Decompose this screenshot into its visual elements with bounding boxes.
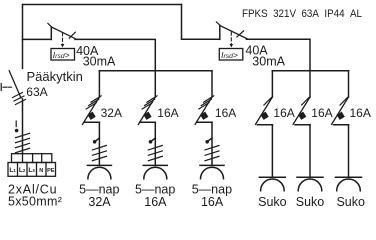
box Irsd: [219, 49, 243, 61]
socket symbol suko3: [336, 177, 362, 191]
wire: group2 bus: [272, 70, 348, 72]
svg-text:N: N: [39, 168, 43, 174]
wire: branch to RCD F1: [23, 38, 52, 40]
wire col1 down: [98, 122, 100, 165]
wire col3 down: [211, 122, 213, 165]
supply cable mark: [15, 121, 30, 153]
wire: RCD F1 output: [75, 39, 155, 70]
socket symbol col2: [143, 165, 167, 178]
svg-text:Irsd>: Irsd>: [221, 50, 238, 60]
socket symbol suko2: [297, 177, 323, 191]
wire suko3 down: [348, 125, 350, 178]
wire: top bus: [23, 4, 182, 6]
breaker 16A (suko1): [256, 97, 273, 125]
svg-text:30mA: 30mA: [83, 54, 116, 68]
svg-text:FPKS 321V 63A IP44 AL: FPKS 321V 63A IP44 AL: [242, 8, 362, 20]
linkage dashes: [3, 86, 12, 88]
wire: drop MCB3: [211, 71, 213, 97]
wire: below main switch: [22, 99, 24, 154]
wire suko1 down: [271, 125, 273, 178]
svg-text:Irsd>: Irsd>: [53, 50, 70, 60]
svg-text:16A: 16A: [201, 195, 224, 208]
arrowhead: [230, 44, 234, 48]
breaker 16A (suko2): [293, 97, 310, 125]
blade: [51, 27, 75, 39]
blade: [9, 71, 21, 98]
dashed trip link: [62, 33, 64, 45]
svg-text:30mA: 30mA: [252, 54, 285, 68]
dot: [15, 129, 19, 133]
dashed trip link: [230, 32, 232, 45]
socket symbol col3: [200, 165, 224, 178]
RCD F1 40A 30mA: [48, 23, 76, 60]
arrowhead: [61, 44, 65, 48]
pivot tick: [216, 22, 219, 25]
fuse-switch 16A (col3): [195, 96, 214, 124]
svg-text:PE: PE: [47, 168, 55, 174]
socket symbol col1: [87, 165, 111, 178]
wire: drop MCB1: [98, 71, 100, 97]
wire: drop S3: [348, 71, 350, 97]
cable mark col2: [148, 138, 162, 161]
3-pole slashes: [13, 93, 26, 105]
terminal block upper row: [12, 154, 52, 163]
wire: RCD F2 output: [247, 39, 311, 71]
svg-text:Suko: Suko: [336, 195, 365, 208]
wire col2 down: [154, 122, 156, 165]
svg-text:16A: 16A: [215, 106, 236, 120]
svg-text:L1: L1: [9, 167, 16, 174]
fuse-switch 16A (col2): [138, 96, 157, 124]
wire suko2 down: [309, 125, 311, 178]
RCD F2 40A 30mA: [216, 22, 247, 60]
riser: [219, 25, 221, 39]
svg-text:16A: 16A: [311, 106, 332, 120]
svg-text:63A: 63A: [26, 85, 47, 99]
box Irsd: [51, 49, 75, 61]
svg-text:32A: 32A: [88, 195, 111, 208]
riser: [50, 27, 52, 40]
blade: [220, 25, 247, 38]
socket symbol suko1: [259, 177, 285, 191]
svg-text:16A: 16A: [157, 106, 178, 120]
wire: drop MCB2: [154, 71, 156, 97]
svg-text:L2: L2: [19, 167, 26, 174]
wire: left main vertical: [22, 5, 24, 69]
terminal block lower row L1 L2 L3 N PE: [8, 163, 56, 177]
wire: drop S1: [271, 71, 273, 97]
tick: [15, 121, 17, 127]
cable mark col3: [205, 138, 219, 161]
svg-text:5x50mm²: 5x50mm²: [8, 195, 62, 208]
fuse-switch 32A (col1): [83, 96, 102, 124]
blade cross: [69, 32, 75, 38]
blade cross: [237, 31, 244, 37]
svg-text:16A: 16A: [350, 106, 371, 120]
pivot tick: [48, 23, 51, 26]
svg-text:32A: 32A: [101, 106, 122, 120]
svg-text:Suko: Suko: [296, 195, 325, 208]
svg-text:L3: L3: [28, 167, 35, 174]
breaker 16A (suko3): [332, 97, 349, 125]
wire: drop to RCD F2: [182, 5, 220, 40]
svg-text:16A: 16A: [144, 195, 167, 208]
main switch Pääkytkin 63A: [1, 71, 25, 105]
svg-text:Pääkytkin: Pääkytkin: [27, 69, 83, 84]
5 conductor slashes: [16, 133, 30, 152]
svg-text:16A: 16A: [273, 106, 294, 120]
wire: drop S2: [309, 71, 311, 97]
svg-text:Suko: Suko: [258, 195, 287, 208]
wire: group1 bus: [99, 70, 212, 72]
linkage tick: [0, 84, 2, 91]
cable mark col1: [92, 138, 106, 161]
